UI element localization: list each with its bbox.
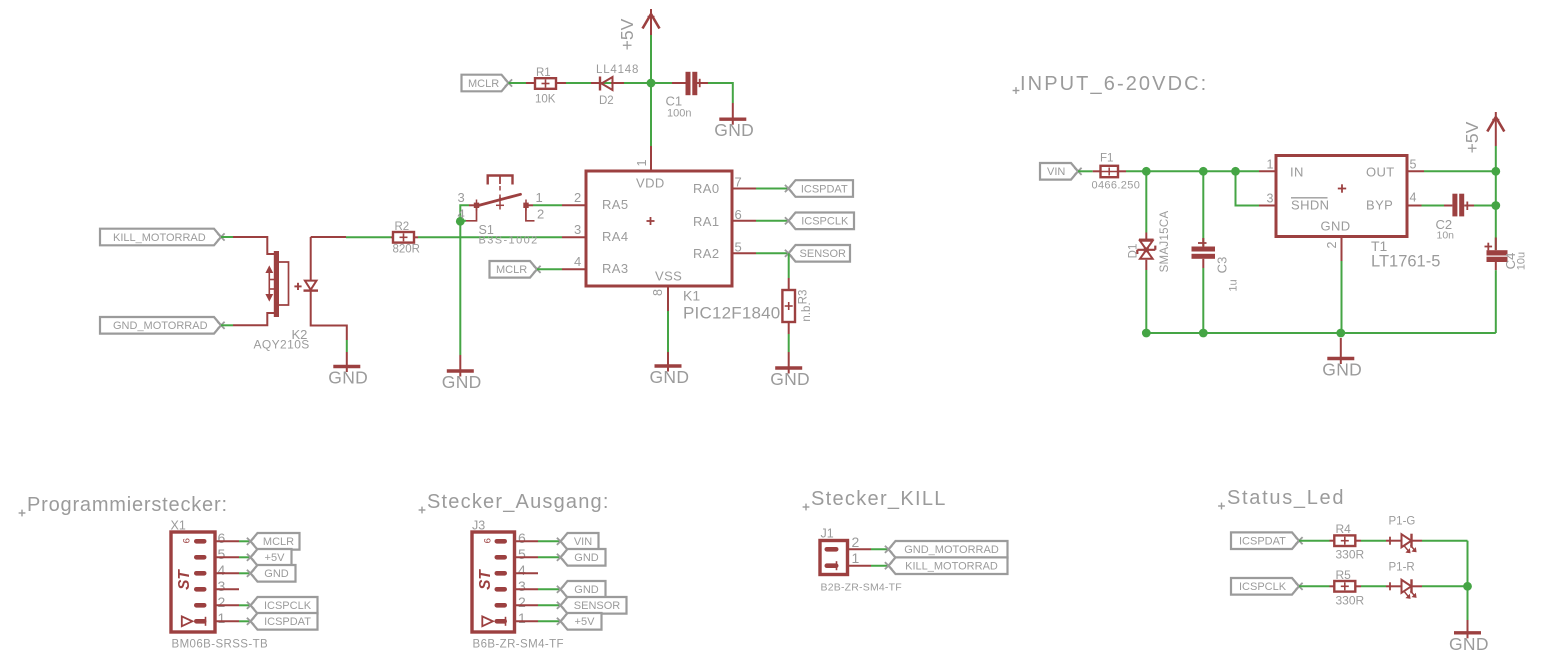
svg-text:ICSPDAT: ICSPDAT [264,616,311,628]
svg-text:5: 5 [1410,158,1417,172]
svg-text:PIC12F1840: PIC12F1840 [683,304,780,323]
svg-text:R1: R1 [536,67,551,79]
svg-text:VIN: VIN [1047,166,1065,178]
svg-text:BYP: BYP [1366,198,1393,213]
svg-text:KILL_MOTORRAD: KILL_MOTORRAD [113,232,206,244]
svg-text:C3: C3 [1215,257,1230,274]
svg-text:Programmierstecker:: Programmierstecker: [27,494,228,516]
svg-text:1: 1 [518,610,526,626]
svg-text:P1-R: P1-R [1389,561,1415,573]
svg-text:3: 3 [458,190,465,205]
svg-text:1: 1 [218,610,226,626]
svg-text:LT1761-5: LT1761-5 [1371,253,1440,271]
svg-text:ST: ST [477,569,494,590]
svg-text:GND: GND [574,584,599,596]
svg-text:ICSPDAT: ICSPDAT [1239,536,1286,548]
svg-text:Status_Led: Status_Led [1227,487,1345,509]
svg-text:GND: GND [1322,360,1362,380]
svg-text:1: 1 [635,159,649,166]
svg-text:RA1: RA1 [693,214,720,229]
svg-text:VDD: VDD [636,176,665,191]
svg-text:MCLR: MCLR [263,536,294,548]
svg-text:5: 5 [735,239,742,254]
svg-text:10n: 10n [1437,230,1455,242]
svg-text:4: 4 [218,562,226,578]
svg-text:SENSOR: SENSOR [574,600,621,612]
svg-text:6: 6 [518,530,526,546]
svg-text:n.b.: n.b. [801,302,813,321]
svg-text:GND: GND [442,372,482,392]
svg-text:+5V: +5V [617,18,637,50]
svg-text:2: 2 [537,207,544,222]
svg-text:R5: R5 [1336,568,1352,582]
svg-text:820R: 820R [393,244,421,256]
svg-text:Stecker_KILL: Stecker_KILL [811,488,947,510]
svg-text:4: 4 [458,207,465,222]
svg-text:B2B-ZR-SM4-TF: B2B-ZR-SM4-TF [821,582,902,594]
svg-text:2: 2 [574,190,581,205]
svg-text:P1-G: P1-G [1389,516,1416,528]
svg-text:Stecker_Ausgang:: Stecker_Ausgang: [427,491,610,513]
svg-text:100n: 100n [667,108,691,120]
svg-text:R2: R2 [395,221,410,233]
svg-text:6: 6 [482,538,493,543]
svg-text:RA3: RA3 [602,261,629,276]
svg-text:LL4148: LL4148 [596,64,639,76]
svg-text:VSS: VSS [655,269,682,284]
svg-text:7: 7 [735,175,742,190]
svg-text:2: 2 [518,594,526,610]
svg-text:2: 2 [852,534,860,550]
svg-text:AQY210S: AQY210S [254,338,310,352]
svg-text:6: 6 [218,530,226,546]
svg-text:C1: C1 [666,94,683,109]
svg-text:ICSPCLK: ICSPCLK [264,600,312,612]
svg-text:GND: GND [328,368,368,388]
svg-text:MCLR: MCLR [496,264,527,276]
svg-text:RA2: RA2 [693,246,720,261]
svg-text:1: 1 [1267,158,1274,172]
svg-text:4: 4 [1410,191,1417,205]
svg-text:+5V: +5V [265,552,286,564]
svg-text:3: 3 [574,222,581,237]
svg-text:GND: GND [650,367,690,387]
svg-text:D1: D1 [1128,244,1140,259]
svg-text:0466.250: 0466.250 [1092,180,1141,192]
svg-text:5: 5 [518,546,526,562]
svg-text:330R: 330R [1336,593,1365,607]
svg-text:J1: J1 [821,527,834,541]
svg-text:10K: 10K [535,94,556,106]
svg-text:3: 3 [218,578,226,594]
svg-text:GND: GND [1449,634,1489,654]
svg-text:B6B-ZR-SM4-TF: B6B-ZR-SM4-TF [473,639,564,651]
svg-text:INPUT_6-20VDC:: INPUT_6-20VDC: [1020,73,1208,95]
svg-text:GND: GND [1321,219,1351,234]
svg-text:IN: IN [1290,165,1304,180]
svg-text:SMAJ15CA: SMAJ15CA [1159,211,1171,273]
svg-text:R3: R3 [798,290,810,305]
svg-text:5: 5 [218,546,226,562]
svg-text:10u: 10u [1515,252,1527,270]
svg-text:6: 6 [181,538,192,543]
svg-text:+5V: +5V [575,616,596,628]
svg-text:330R: 330R [1336,548,1365,562]
svg-text:ST: ST [176,569,193,590]
svg-text:GND: GND [264,568,289,580]
svg-text:OUT: OUT [1366,165,1395,180]
svg-text:K1: K1 [683,288,700,304]
svg-text:6: 6 [735,207,742,222]
svg-text:4: 4 [574,254,581,269]
svg-text:3: 3 [1267,192,1274,206]
svg-text:GND_MOTORRAD: GND_MOTORRAD [113,320,208,332]
svg-text:2: 2 [1325,241,1339,248]
svg-text:+5V: +5V [1462,121,1482,153]
svg-text:R4: R4 [1336,522,1352,536]
svg-text:ICSPCLK: ICSPCLK [1239,581,1287,593]
svg-text:KILL_MOTORRAD: KILL_MOTORRAD [905,561,998,573]
svg-text:4: 4 [518,562,526,578]
svg-text:RA0: RA0 [693,181,720,196]
svg-text:F1: F1 [1100,153,1113,165]
svg-text:1u: 1u [1227,279,1239,291]
svg-text:ICSPCLK: ICSPCLK [801,216,849,228]
svg-text:MCLR: MCLR [468,78,499,90]
svg-text:8: 8 [651,289,665,296]
svg-text:RA5: RA5 [602,197,629,212]
svg-text:1: 1 [852,550,860,566]
svg-text:VIN: VIN [574,536,592,548]
svg-text:GND: GND [574,552,599,564]
svg-text:ICSPDAT: ICSPDAT [801,183,848,195]
svg-text:GND: GND [714,120,754,140]
svg-text:BM06B-SRSS-TB: BM06B-SRSS-TB [172,639,269,651]
svg-text:SENSOR: SENSOR [800,248,847,260]
svg-text:D2: D2 [599,95,614,107]
svg-text:B3S-1002: B3S-1002 [479,235,539,247]
svg-text:GND_MOTORRAD: GND_MOTORRAD [904,544,999,556]
svg-text:2: 2 [218,594,226,610]
svg-text:3: 3 [518,578,526,594]
svg-text:GND: GND [770,369,810,389]
svg-text:RA4: RA4 [602,229,629,244]
svg-text:1: 1 [536,190,543,205]
svg-text:SHDN: SHDN [1291,198,1329,213]
